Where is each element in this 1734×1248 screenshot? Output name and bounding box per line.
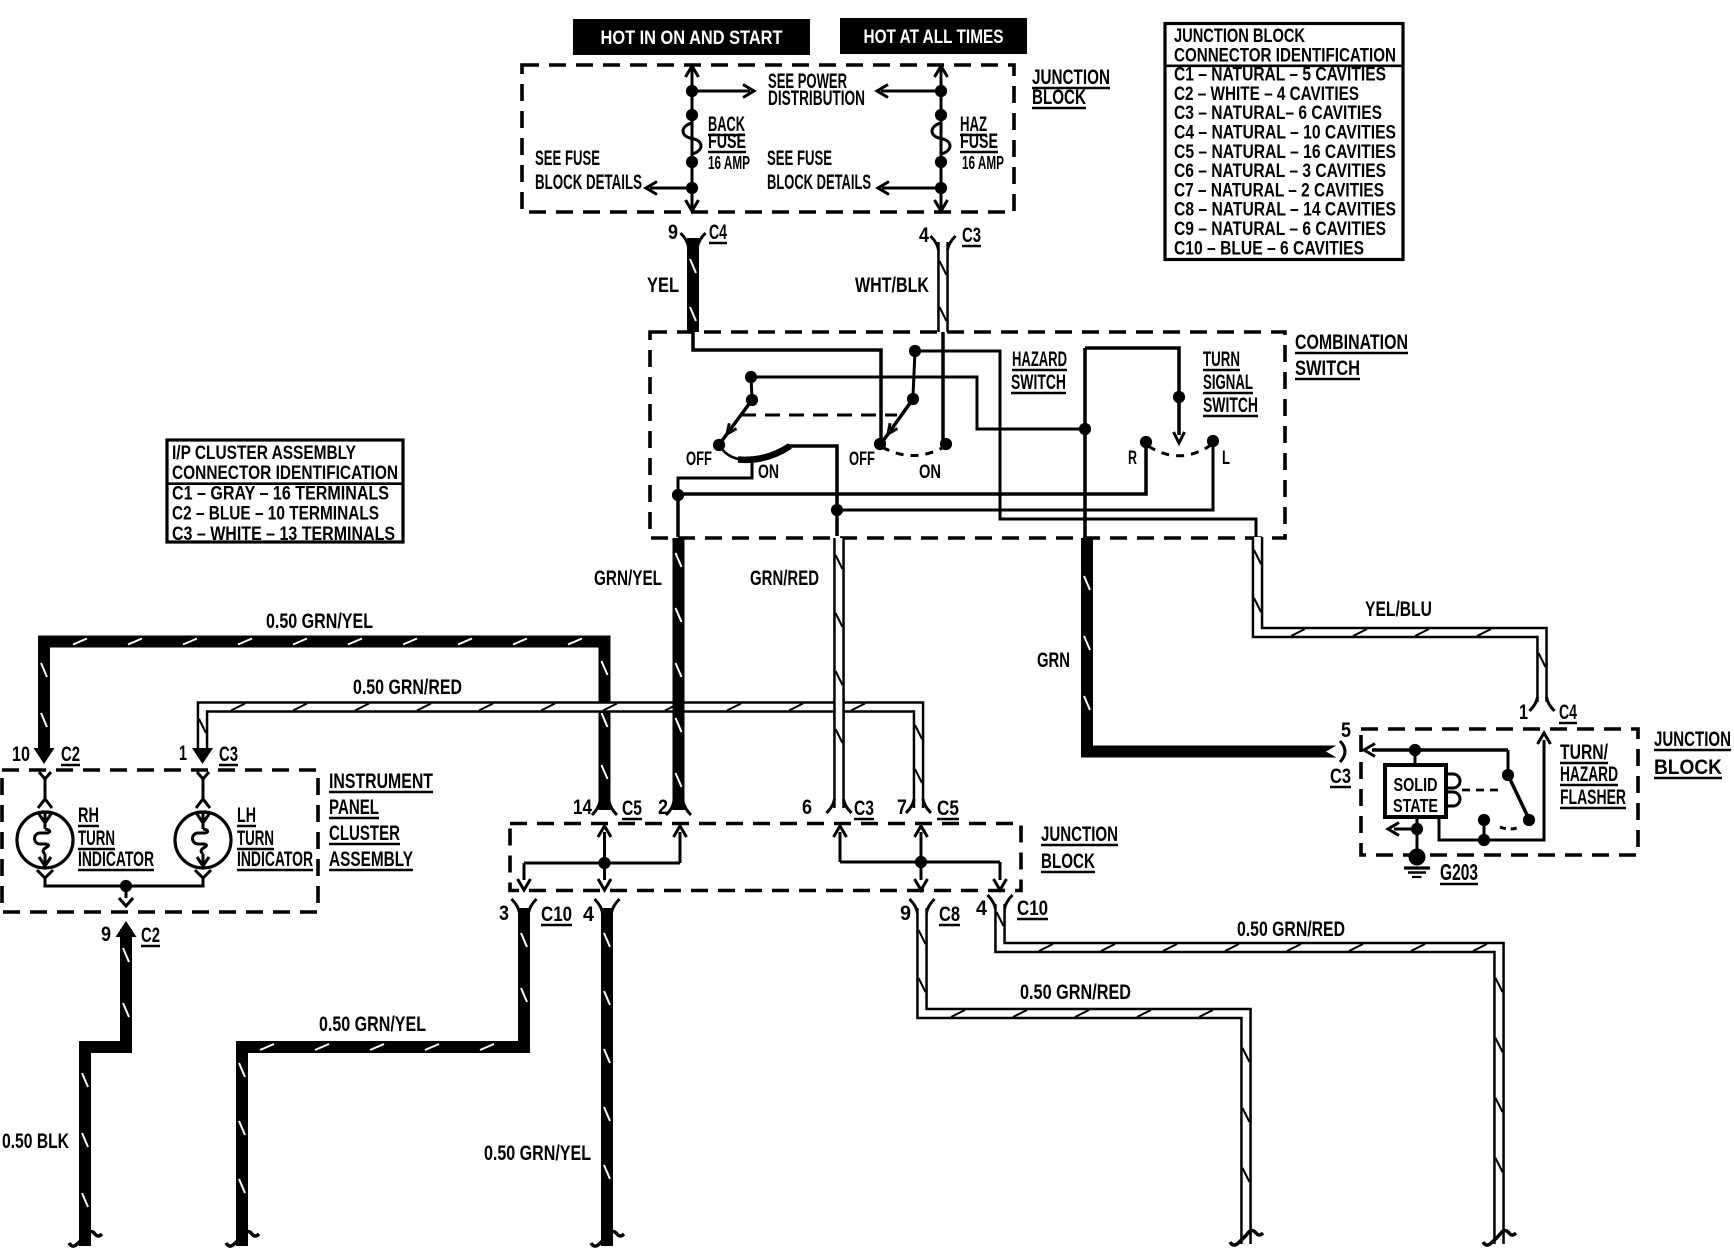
svg-text:2: 2 — [658, 796, 668, 819]
svg-text:FUSE: FUSE — [708, 130, 746, 153]
svg-text:0.50 BLK: 0.50 BLK — [2, 1130, 69, 1153]
svg-text:C5: C5 — [622, 797, 642, 820]
svg-text:C3: C3 — [854, 797, 874, 820]
svg-text:ASSEMBLY: ASSEMBLY — [329, 848, 413, 871]
svg-text:SEE FUSE: SEE FUSE — [767, 147, 832, 170]
svg-text:CLUSTER: CLUSTER — [329, 822, 400, 845]
svg-text:ON: ON — [919, 462, 941, 483]
svg-text:BLOCK DETAILS: BLOCK DETAILS — [767, 171, 871, 194]
svg-text:CONNECTOR IDENTIFICATION: CONNECTOR IDENTIFICATION — [172, 462, 398, 484]
svg-text:0.50 GRN/YEL: 0.50 GRN/YEL — [484, 1142, 591, 1165]
svg-text:TURN: TURN — [78, 827, 115, 850]
svg-text:RH: RH — [78, 804, 99, 827]
svg-text:DISTRIBUTION: DISTRIBUTION — [768, 87, 865, 110]
svg-text:4: 4 — [976, 897, 987, 920]
svg-text:0.50 GRN/YEL: 0.50 GRN/YEL — [319, 1013, 426, 1036]
svg-text:C3: C3 — [219, 743, 238, 766]
svg-text:BLOCK: BLOCK — [1032, 86, 1086, 109]
svg-text:WHT/BLK: WHT/BLK — [855, 274, 929, 297]
svg-text:4: 4 — [583, 903, 594, 926]
svg-text:HAZARD: HAZARD — [1560, 763, 1618, 786]
svg-text:GRN: GRN — [1037, 649, 1070, 672]
svg-text:16 AMP: 16 AMP — [962, 153, 1004, 173]
svg-text:SWITCH: SWITCH — [1203, 394, 1258, 417]
svg-text:C3: C3 — [1330, 765, 1351, 788]
svg-text:C1 – GRAY – 16 TERMINALS: C1 – GRAY – 16 TERMINALS — [172, 482, 389, 504]
svg-text:YEL/BLU: YEL/BLU — [1365, 598, 1432, 621]
svg-text:INSTRUMENT: INSTRUMENT — [329, 770, 433, 793]
svg-text:1: 1 — [179, 742, 187, 765]
svg-text:C8: C8 — [939, 903, 960, 926]
svg-text:PANEL: PANEL — [329, 796, 379, 819]
svg-text:0.50 GRN/RED: 0.50 GRN/RED — [353, 676, 462, 699]
svg-text:SOLID: SOLID — [1394, 775, 1438, 795]
svg-text:SEE FUSE: SEE FUSE — [535, 147, 600, 170]
svg-text:1: 1 — [1519, 701, 1528, 724]
svg-text:0.50 GRN/RED: 0.50 GRN/RED — [1020, 981, 1131, 1004]
svg-text:C3: C3 — [962, 224, 981, 247]
svg-text:C10: C10 — [1017, 897, 1048, 920]
svg-text:BLOCK: BLOCK — [1654, 756, 1722, 779]
svg-text:TURN: TURN — [1203, 348, 1240, 371]
svg-text:4: 4 — [919, 224, 929, 247]
svg-text:JUNCTION: JUNCTION — [1654, 728, 1731, 751]
svg-text:L: L — [1222, 448, 1230, 469]
svg-text:C10: C10 — [541, 903, 572, 926]
svg-text:ON: ON — [758, 462, 779, 483]
svg-text:HOT IN ON AND START: HOT IN ON AND START — [601, 28, 783, 49]
svg-text:JUNCTION: JUNCTION — [1041, 823, 1118, 846]
svg-text:FLASHER: FLASHER — [1560, 786, 1626, 809]
svg-text:C2 – BLUE – 10 TERMINALS: C2 – BLUE – 10 TERMINALS — [172, 503, 379, 525]
svg-text:7: 7 — [897, 796, 907, 819]
svg-text:R: R — [1128, 448, 1137, 469]
svg-text:BLOCK DETAILS: BLOCK DETAILS — [535, 171, 642, 194]
svg-text:3: 3 — [499, 902, 509, 925]
svg-text:C4: C4 — [709, 221, 727, 244]
svg-text:COMBINATION: COMBINATION — [1295, 331, 1408, 354]
svg-text:G203: G203 — [1440, 859, 1478, 885]
svg-text:C4: C4 — [1559, 701, 1577, 724]
svg-text:16 AMP: 16 AMP — [708, 153, 750, 173]
svg-text:9: 9 — [900, 902, 911, 925]
svg-text:5: 5 — [1341, 719, 1351, 742]
svg-text:0.50 GRN/YEL: 0.50 GRN/YEL — [266, 610, 373, 633]
svg-text:OFF: OFF — [849, 449, 875, 470]
svg-text:LH: LH — [237, 804, 256, 827]
svg-text:10: 10 — [12, 743, 30, 766]
svg-text:C5: C5 — [937, 797, 959, 820]
svg-text:HOT AT ALL TIMES: HOT AT ALL TIMES — [864, 27, 1004, 48]
svg-text:GRN/YEL: GRN/YEL — [594, 567, 662, 590]
svg-text:9: 9 — [101, 923, 111, 946]
svg-text:OFF: OFF — [686, 449, 712, 470]
svg-text:INDICATOR: INDICATOR — [237, 848, 313, 871]
svg-text:SWITCH: SWITCH — [1011, 371, 1066, 394]
svg-text:I/P CLUSTER ASSEMBLY: I/P CLUSTER ASSEMBLY — [172, 442, 356, 464]
svg-text:HAZARD: HAZARD — [1012, 348, 1067, 371]
svg-text:6: 6 — [802, 796, 812, 819]
svg-text:TURN: TURN — [237, 827, 274, 850]
svg-text:14: 14 — [573, 796, 592, 819]
svg-text:C2: C2 — [61, 743, 80, 766]
svg-text:INDICATOR: INDICATOR — [78, 848, 154, 871]
svg-text:TURN/: TURN/ — [1560, 741, 1608, 764]
svg-text:SIGNAL: SIGNAL — [1203, 371, 1253, 394]
svg-text:GRN/RED: GRN/RED — [750, 567, 819, 590]
svg-text:YEL: YEL — [647, 274, 679, 297]
svg-text:0.50 GRN/RED: 0.50 GRN/RED — [1237, 918, 1345, 941]
svg-text:C3 – WHITE – 13 TERMINALS: C3 – WHITE – 13 TERMINALS — [172, 523, 395, 545]
svg-text:C2: C2 — [141, 924, 160, 947]
svg-text:C10 – BLUE – 6 CAVITIES: C10 – BLUE – 6 CAVITIES — [1174, 237, 1364, 259]
svg-text:SWITCH: SWITCH — [1295, 357, 1360, 380]
svg-text:FUSE: FUSE — [960, 130, 998, 153]
svg-text:BLOCK: BLOCK — [1041, 850, 1095, 873]
svg-text:STATE: STATE — [1393, 796, 1438, 816]
svg-text:9: 9 — [668, 221, 678, 244]
